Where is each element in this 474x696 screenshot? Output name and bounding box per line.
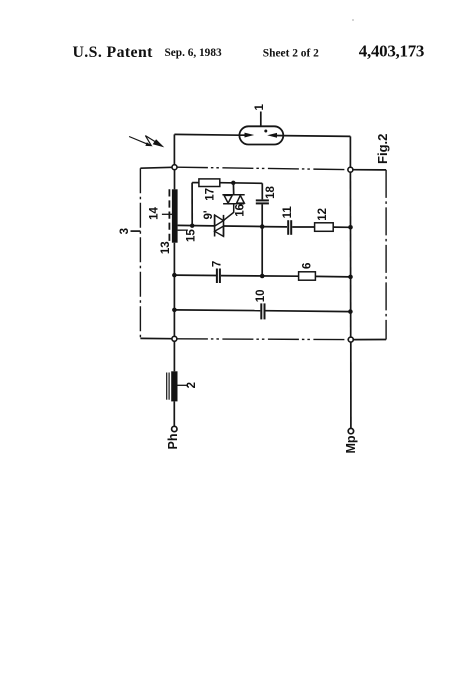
wire: riser cap18 node to row 7 — [261, 227, 263, 276]
box 3 left edge (dash-dot) — [139, 168, 141, 338]
label 3 leader — [131, 230, 141, 232]
resistor 17 — [199, 179, 220, 187]
svg-text:Mp: Mp — [344, 435, 358, 453]
wire: diac to triac gate — [224, 204, 234, 221]
wire: left bus inside-box to Ph drop — [173, 341, 175, 371]
svg-text:6: 6 — [302, 263, 314, 269]
svg-text:9': 9' — [203, 210, 215, 219]
svg-text:13: 13 — [160, 241, 172, 254]
svg-text:Sep. 6, 1983: Sep. 6, 1983 — [165, 47, 222, 59]
diac 16 — [222, 195, 244, 204]
label 15 leader — [178, 229, 188, 231]
wire: left bus below transformer — [173, 243, 175, 337]
wire: node to capacitor 11 — [262, 226, 287, 228]
junction: left bus row 10 — [172, 308, 177, 313]
label 2 leader — [178, 384, 189, 386]
flash lamp 1 gas dot — [264, 130, 267, 133]
wire: row 7 left bus to cap 7 — [174, 274, 216, 276]
resistor 6 — [299, 272, 316, 280]
wire: riser from tap node to resistor 17 — [191, 183, 193, 226]
flash lamp 1 left electrode — [239, 133, 254, 138]
wire: resistor 12 to right bus — [333, 226, 350, 228]
wire: resistor 6 to right bus — [315, 275, 350, 278]
svg-text:18: 18 — [265, 186, 277, 199]
flash lamp 1 right electrode — [267, 133, 283, 138]
svg-text:Fig.2: Fig.2 — [375, 134, 390, 164]
wire: cap 10 to right bus — [266, 310, 351, 313]
capacitor 7 right plate — [219, 269, 221, 284]
box 3 bottom edge (dash-dot) — [140, 338, 386, 339]
capacitor 7 left plate — [216, 269, 218, 284]
svg-text:U.S. Patent: U.S. Patent — [73, 44, 154, 61]
terminal Ph circle — [172, 426, 177, 431]
box 3 right edge (dash-dot) — [385, 170, 387, 340]
svg-text:Sheet 2 of 2: Sheet 2 of 2 — [263, 48, 319, 60]
wire: cap 7 to resistor 6 — [221, 275, 299, 278]
svg-text:2: 2 — [186, 382, 198, 388]
wire: capacitor 11 to resistor 12 — [292, 226, 314, 228]
wire: right bus inside box — [349, 172, 351, 337]
svg-text:7: 7 — [212, 261, 224, 267]
capacitor 18 bottom plate — [256, 202, 269, 204]
wire: resistor 17 right to node — [220, 182, 262, 185]
wire: capacitor 18 to main wire — [261, 204, 263, 226]
box 3 top edge (dash-dot) — [140, 167, 386, 170]
wire: row 10 — [174, 309, 260, 312]
svg-text:4,403,173: 4,403,173 — [359, 41, 424, 60]
wire: inductor 2 to Ph terminal — [173, 401, 175, 426]
svg-text:17: 17 — [204, 188, 216, 201]
node: bottom-right terminal circle — [348, 337, 353, 342]
triac 9' — [215, 215, 224, 237]
svg-text:1: 1 — [254, 104, 266, 111]
wire: node down to diac 16 — [232, 183, 234, 195]
label 1 leader — [260, 112, 262, 127]
flash lamp 1 (envelope) — [239, 126, 283, 144]
junction: row 7 center node — [260, 274, 265, 279]
node: top-right terminal circle — [348, 167, 353, 172]
wire: top left horizontal to lamp — [174, 133, 240, 136]
svg-text:16: 16 — [235, 204, 247, 217]
junction: cap18/cap11 node — [260, 224, 265, 229]
wire: left drop from top wire to node — [173, 134, 175, 165]
junction: R17/diac node — [231, 181, 235, 185]
node: bottom-left terminal circle — [172, 336, 177, 341]
transformer winding 13 (thick bar) — [172, 189, 178, 242]
capacitor 10 left plate — [260, 303, 262, 319]
resistor 12 — [315, 223, 334, 232]
wire: right bus to Mp terminal — [350, 342, 352, 428]
scan speck — [352, 19, 354, 21]
junction: tap node — [190, 224, 194, 228]
svg-text:10: 10 — [255, 290, 267, 303]
svg-text:3: 3 — [119, 228, 131, 234]
capacitor 18 top plate — [256, 199, 269, 201]
svg-text:12: 12 — [317, 208, 329, 221]
inductor 2 winding (thick bar) — [171, 371, 177, 401]
junction: right bus row 7 — [348, 275, 353, 280]
capacitor 11 left plate — [287, 220, 289, 235]
wire: triac to cap 11 node — [224, 225, 263, 228]
junction: left bus row 7 — [172, 273, 177, 278]
light flash arrow (zigzag) — [129, 136, 164, 148]
svg-text:11: 11 — [282, 206, 294, 219]
capacitor 11 right plate — [290, 220, 292, 235]
label 14 leader — [162, 213, 172, 215]
terminal Mp circle — [348, 428, 353, 433]
capacitor 10 right plate — [264, 303, 266, 319]
transformer core 14 (dashed line) — [168, 189, 170, 242]
node: top-left terminal circle — [172, 165, 177, 170]
inductor 2 core lines — [167, 373, 169, 400]
wire: transformer tap to triac — [178, 224, 215, 227]
wire: down to capacitor 18 — [261, 183, 263, 199]
junction: right bus row 10 — [348, 309, 353, 314]
svg-text:14: 14 — [148, 207, 160, 220]
wire: left bus node to transformer — [174, 170, 176, 190]
wire: right drop from top wire to node — [349, 136, 351, 167]
junction: right bus row main — [348, 225, 353, 230]
wire: lamp to top right — [283, 135, 350, 138]
svg-text:15: 15 — [186, 229, 198, 242]
wire: to resistor 17 left — [192, 182, 199, 184]
svg-text:Ph: Ph — [166, 434, 180, 450]
